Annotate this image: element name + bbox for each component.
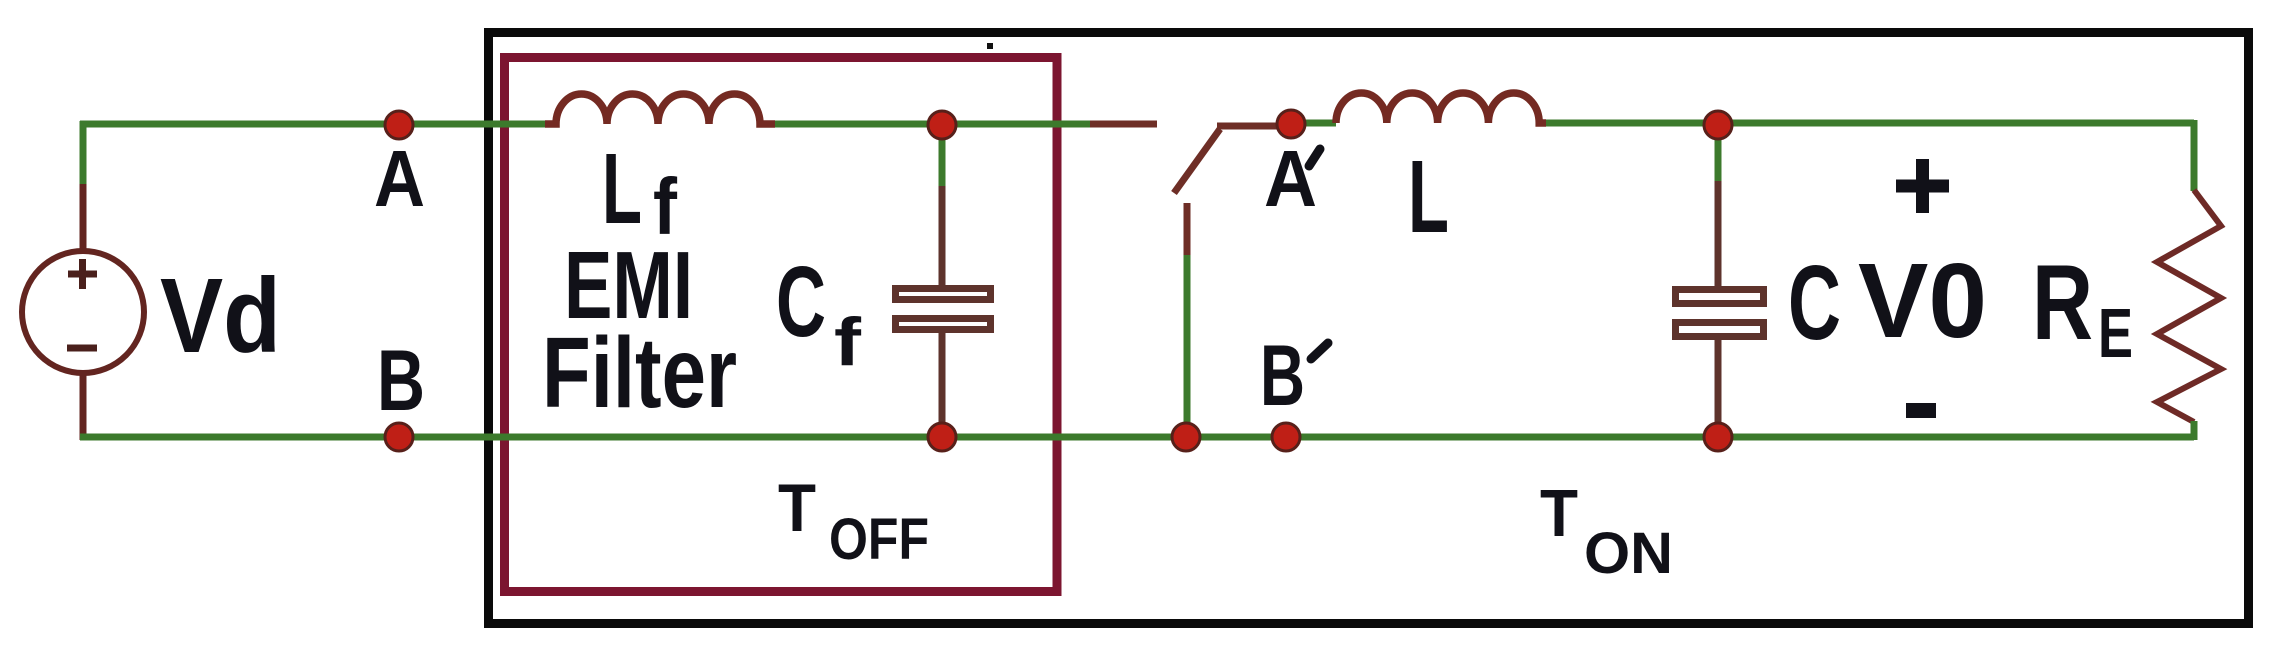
switch blade	[1174, 129, 1220, 193]
svg-text:R: R	[2032, 242, 2093, 362]
svg-text:B: B	[1260, 328, 1305, 424]
label T ON	[1540, 476, 1673, 586]
wire bottom horizontal	[80, 434, 2194, 441]
wire Cf branch green stub	[939, 127, 946, 188]
wire source bottom lead	[80, 374, 87, 440]
label Cf	[776, 246, 861, 380]
label minus output	[1906, 403, 1936, 418]
EMI filter box	[505, 58, 1058, 592]
svg-text:ON: ON	[1584, 521, 1673, 586]
wire Cf branch upper maroon	[939, 186, 946, 287]
node switch bottom	[1172, 423, 1200, 451]
voltage source circle	[22, 251, 144, 373]
wire C branch lower maroon	[1715, 340, 1722, 434]
outer converter box	[489, 33, 2249, 624]
wire C branch green stub	[1715, 126, 1722, 183]
svg-text:L: L	[1408, 139, 1449, 254]
wire Lf to Cf node	[775, 121, 1090, 128]
node B	[385, 423, 413, 451]
label RE	[2032, 242, 2133, 372]
node Cf bottom	[928, 423, 956, 451]
label B'	[1260, 328, 1328, 424]
switch lower contact stub	[1184, 203, 1191, 256]
wire top left horizontal	[80, 121, 556, 128]
inductor L	[1336, 93, 1546, 123]
svg-text:T: T	[1540, 476, 1578, 551]
node Cf top	[928, 111, 956, 139]
svg-text:L: L	[602, 133, 642, 245]
label Lf	[602, 133, 677, 251]
node B'	[1272, 423, 1300, 451]
wire L to C node green	[1546, 120, 2194, 127]
wire switch branch green	[1184, 255, 1191, 437]
svg-text:Filter: Filter	[542, 317, 737, 429]
wire Cf branch lower maroon	[939, 333, 946, 434]
svg-text:E: E	[2098, 294, 2133, 372]
svg-text:Vd: Vd	[160, 257, 281, 375]
svg-text:B: B	[377, 333, 425, 429]
capacitor Cf	[896, 289, 991, 330]
wire right edge top green	[2191, 120, 2198, 191]
source minus sign	[67, 345, 97, 352]
wire right edge bottom green	[2191, 421, 2198, 440]
svg-text:V0: V0	[1858, 242, 1987, 360]
wire source top lead	[80, 184, 87, 250]
source plus sign	[68, 259, 97, 289]
svg-text:OFF: OFF	[829, 507, 929, 572]
label plus output	[1896, 159, 1949, 213]
svg-text:f: f	[834, 304, 861, 380]
wire left vertical green	[80, 121, 87, 184]
node A'	[1277, 110, 1305, 138]
wire C branch upper maroon	[1715, 181, 1722, 288]
svg-text:C: C	[1788, 244, 1841, 362]
wire switch to node A'	[1217, 123, 1300, 130]
resistor RE zigzag	[2157, 190, 2221, 422]
svg-text:T: T	[778, 470, 816, 546]
svg-text:C: C	[776, 246, 826, 358]
inductor Lf	[545, 94, 775, 124]
stray dot	[987, 43, 993, 49]
node C bottom	[1704, 423, 1732, 451]
wire node A' to inductor L green	[1296, 120, 1336, 127]
svg-text:A: A	[374, 134, 425, 223]
svg-text:A: A	[1264, 134, 1317, 223]
label T OFF	[778, 470, 929, 572]
node C top	[1704, 111, 1732, 139]
label A'	[1264, 134, 1320, 223]
node A	[385, 111, 413, 139]
capacitor C	[1676, 290, 1764, 337]
wire to switch maroon	[1090, 121, 1157, 128]
